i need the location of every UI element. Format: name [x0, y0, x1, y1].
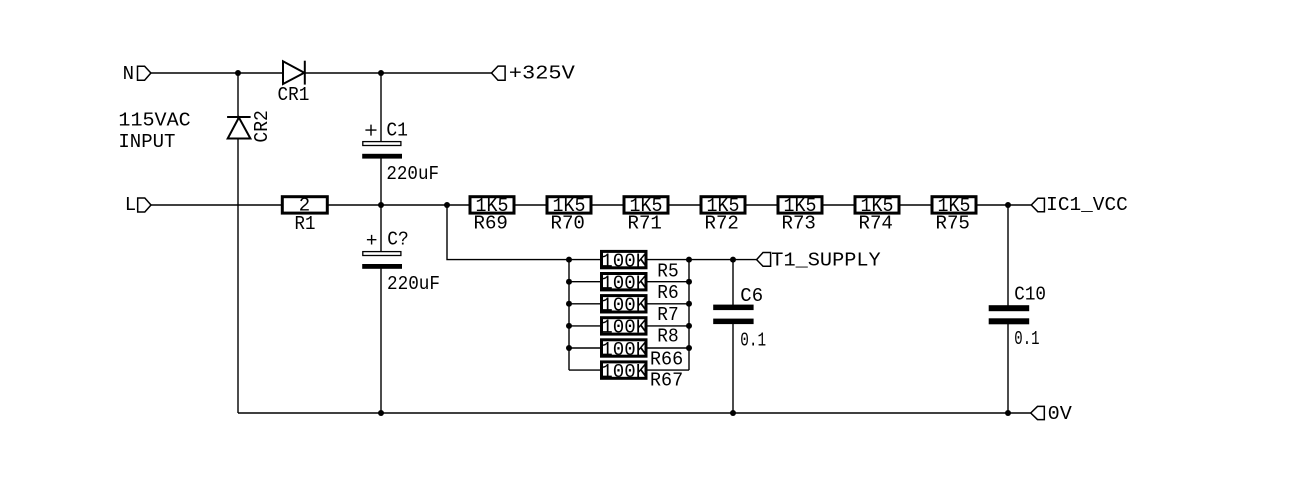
wire row R7: [569, 303, 689, 305]
node left rail R66: [566, 345, 572, 351]
svg-text:T1_SUPPLY: T1_SUPPLY: [771, 250, 881, 272]
capacitor C1: [362, 142, 402, 159]
resistor R5: [602, 251, 647, 267]
node left rail R8: [566, 323, 572, 329]
resistor R7: [602, 296, 647, 312]
svg-text:R72: R72: [705, 212, 739, 234]
svg-text:R5: R5: [657, 261, 678, 283]
svg-text:100K: 100K: [601, 273, 647, 295]
resistor R71: [624, 197, 668, 213]
svg-text:100K: 100K: [601, 250, 647, 272]
node +325V junction: [378, 70, 384, 76]
svg-text:C?: C?: [387, 229, 409, 251]
svg-text:+325V: +325V: [509, 63, 576, 85]
wire C10 stem: [1007, 205, 1009, 413]
svg-text:R67: R67: [650, 370, 683, 392]
svg-text:C10: C10: [1014, 284, 1046, 306]
resistor R6: [602, 274, 647, 290]
svg-text:0V: 0V: [1048, 403, 1073, 425]
port 0V: [1031, 406, 1045, 419]
wire row R66: [569, 347, 689, 349]
label + C?: [367, 229, 409, 251]
capacitor C10: [989, 305, 1029, 324]
diode CR2: [227, 117, 251, 139]
label 115VAC INPUT: [118, 110, 190, 153]
diode CR1: [283, 61, 305, 85]
node right rail R5: [686, 257, 692, 263]
wire row R6: [569, 281, 689, 283]
svg-text:115VAC: 115VAC: [118, 110, 190, 132]
wire row R5: [569, 259, 689, 261]
svg-text:R74: R74: [859, 212, 893, 234]
svg-text:R66: R66: [650, 348, 683, 370]
node left rail R5: [566, 257, 572, 263]
node IC1_VCC junction: [1005, 202, 1011, 208]
resistor R74: [855, 197, 899, 213]
svg-text:IC1_VCC: IC1_VCC: [1046, 194, 1128, 216]
wire C6 stem: [732, 260, 734, 413]
svg-text:R75: R75: [936, 212, 970, 234]
wire row R67: [569, 369, 689, 371]
port N: [138, 66, 151, 80]
resistor R8: [602, 318, 647, 334]
resistor R73: [778, 197, 822, 213]
svg-text:100K: 100K: [601, 295, 647, 317]
node N junction: [235, 70, 241, 76]
svg-text:N: N: [123, 63, 134, 85]
resistor R72: [701, 197, 745, 213]
resistor R1: [282, 197, 327, 213]
wire right rail: [688, 260, 690, 371]
svg-text:R1: R1: [295, 213, 316, 235]
svg-text:C1: C1: [386, 120, 408, 142]
resistor R70: [547, 197, 591, 213]
node right rail R8: [686, 323, 692, 329]
svg-text:R8: R8: [657, 325, 678, 347]
port IC1_VCC: [1031, 198, 1044, 211]
node 0V C? junction: [378, 410, 384, 416]
label + C1: [365, 120, 408, 142]
svg-text:0.1: 0.1: [740, 329, 766, 351]
node 0V C6 junction: [730, 410, 736, 416]
resistor R67: [602, 362, 647, 378]
svg-text:220uF: 220uF: [386, 163, 439, 185]
wire L line: [151, 204, 1032, 206]
svg-text:R6: R6: [657, 282, 678, 304]
svg-text:220uF: 220uF: [387, 273, 440, 295]
svg-text:100K: 100K: [601, 361, 647, 383]
capacitor C6: [713, 305, 753, 325]
node right rail R66: [686, 345, 692, 351]
wire N line: [151, 72, 492, 74]
port T1_SUPPLY: [757, 253, 771, 267]
resistor R66: [602, 340, 647, 356]
node T1_SUPPLY junction: [730, 257, 736, 263]
svg-text:L: L: [125, 194, 136, 216]
node right rail R7: [686, 301, 692, 307]
node left rail R7: [566, 301, 572, 307]
svg-text:R7: R7: [657, 304, 678, 326]
node 0V C10 junction: [1005, 410, 1011, 416]
resistor R69: [470, 197, 514, 213]
svg-text:CR2: CR2: [251, 110, 273, 142]
svg-text:CR1: CR1: [278, 84, 310, 106]
wire C1 stem: [380, 73, 382, 205]
node left rail R6: [566, 279, 572, 285]
svg-text:100K: 100K: [601, 339, 647, 361]
node right rail R6: [686, 279, 692, 285]
svg-text:R73: R73: [782, 212, 816, 234]
resistor R75: [932, 197, 976, 213]
wire T1 supply: [689, 259, 757, 261]
svg-text:0.1: 0.1: [1014, 328, 1039, 350]
svg-text:C6: C6: [740, 285, 763, 307]
wire stack feed: [447, 205, 569, 260]
svg-text:R69: R69: [474, 212, 508, 234]
wire CR2 vertical N-to-0V: [237, 73, 239, 413]
svg-text:R71: R71: [628, 212, 662, 234]
port L: [138, 198, 151, 212]
wire row R8: [569, 325, 689, 327]
capacitor C?: [362, 252, 402, 269]
svg-text:INPUT: INPUT: [118, 131, 175, 153]
svg-text:100K: 100K: [601, 317, 647, 339]
svg-text:R70: R70: [551, 212, 585, 234]
wire left rail: [568, 260, 570, 371]
node C1 bottom junction: [378, 202, 384, 208]
node stack feed junction: [444, 202, 450, 208]
wire C? stem: [380, 205, 382, 413]
port +325V: [492, 66, 506, 80]
wire 0V rail: [238, 412, 1031, 414]
